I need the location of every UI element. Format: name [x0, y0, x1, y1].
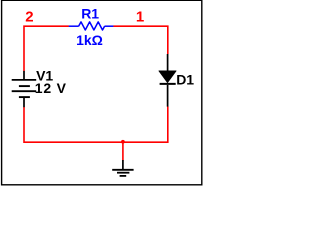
svg-text:D1: D1	[176, 71, 194, 87]
wire: node 2 top-left run (resistor left lead to battery top)	[24, 26, 69, 71]
svg-text:12 V: 12 V	[35, 80, 67, 96]
wire: ground branch	[122, 142, 124, 160]
svg-text:2: 2	[25, 9, 33, 26]
svg-text:R1: R1	[81, 5, 99, 21]
junction dot	[121, 140, 125, 144]
svg-text:1: 1	[136, 9, 144, 26]
diode D1	[159, 54, 176, 107]
resistor R1	[69, 22, 114, 30]
battery V1	[12, 71, 37, 107]
wire: bottom ground net (battery minus to diode cathode)	[24, 107, 168, 143]
ground	[112, 160, 133, 176]
svg-text:1kΩ: 1kΩ	[76, 32, 103, 48]
wire: node 1 top-right run (resistor right lead to diode anode)	[113, 26, 168, 54]
